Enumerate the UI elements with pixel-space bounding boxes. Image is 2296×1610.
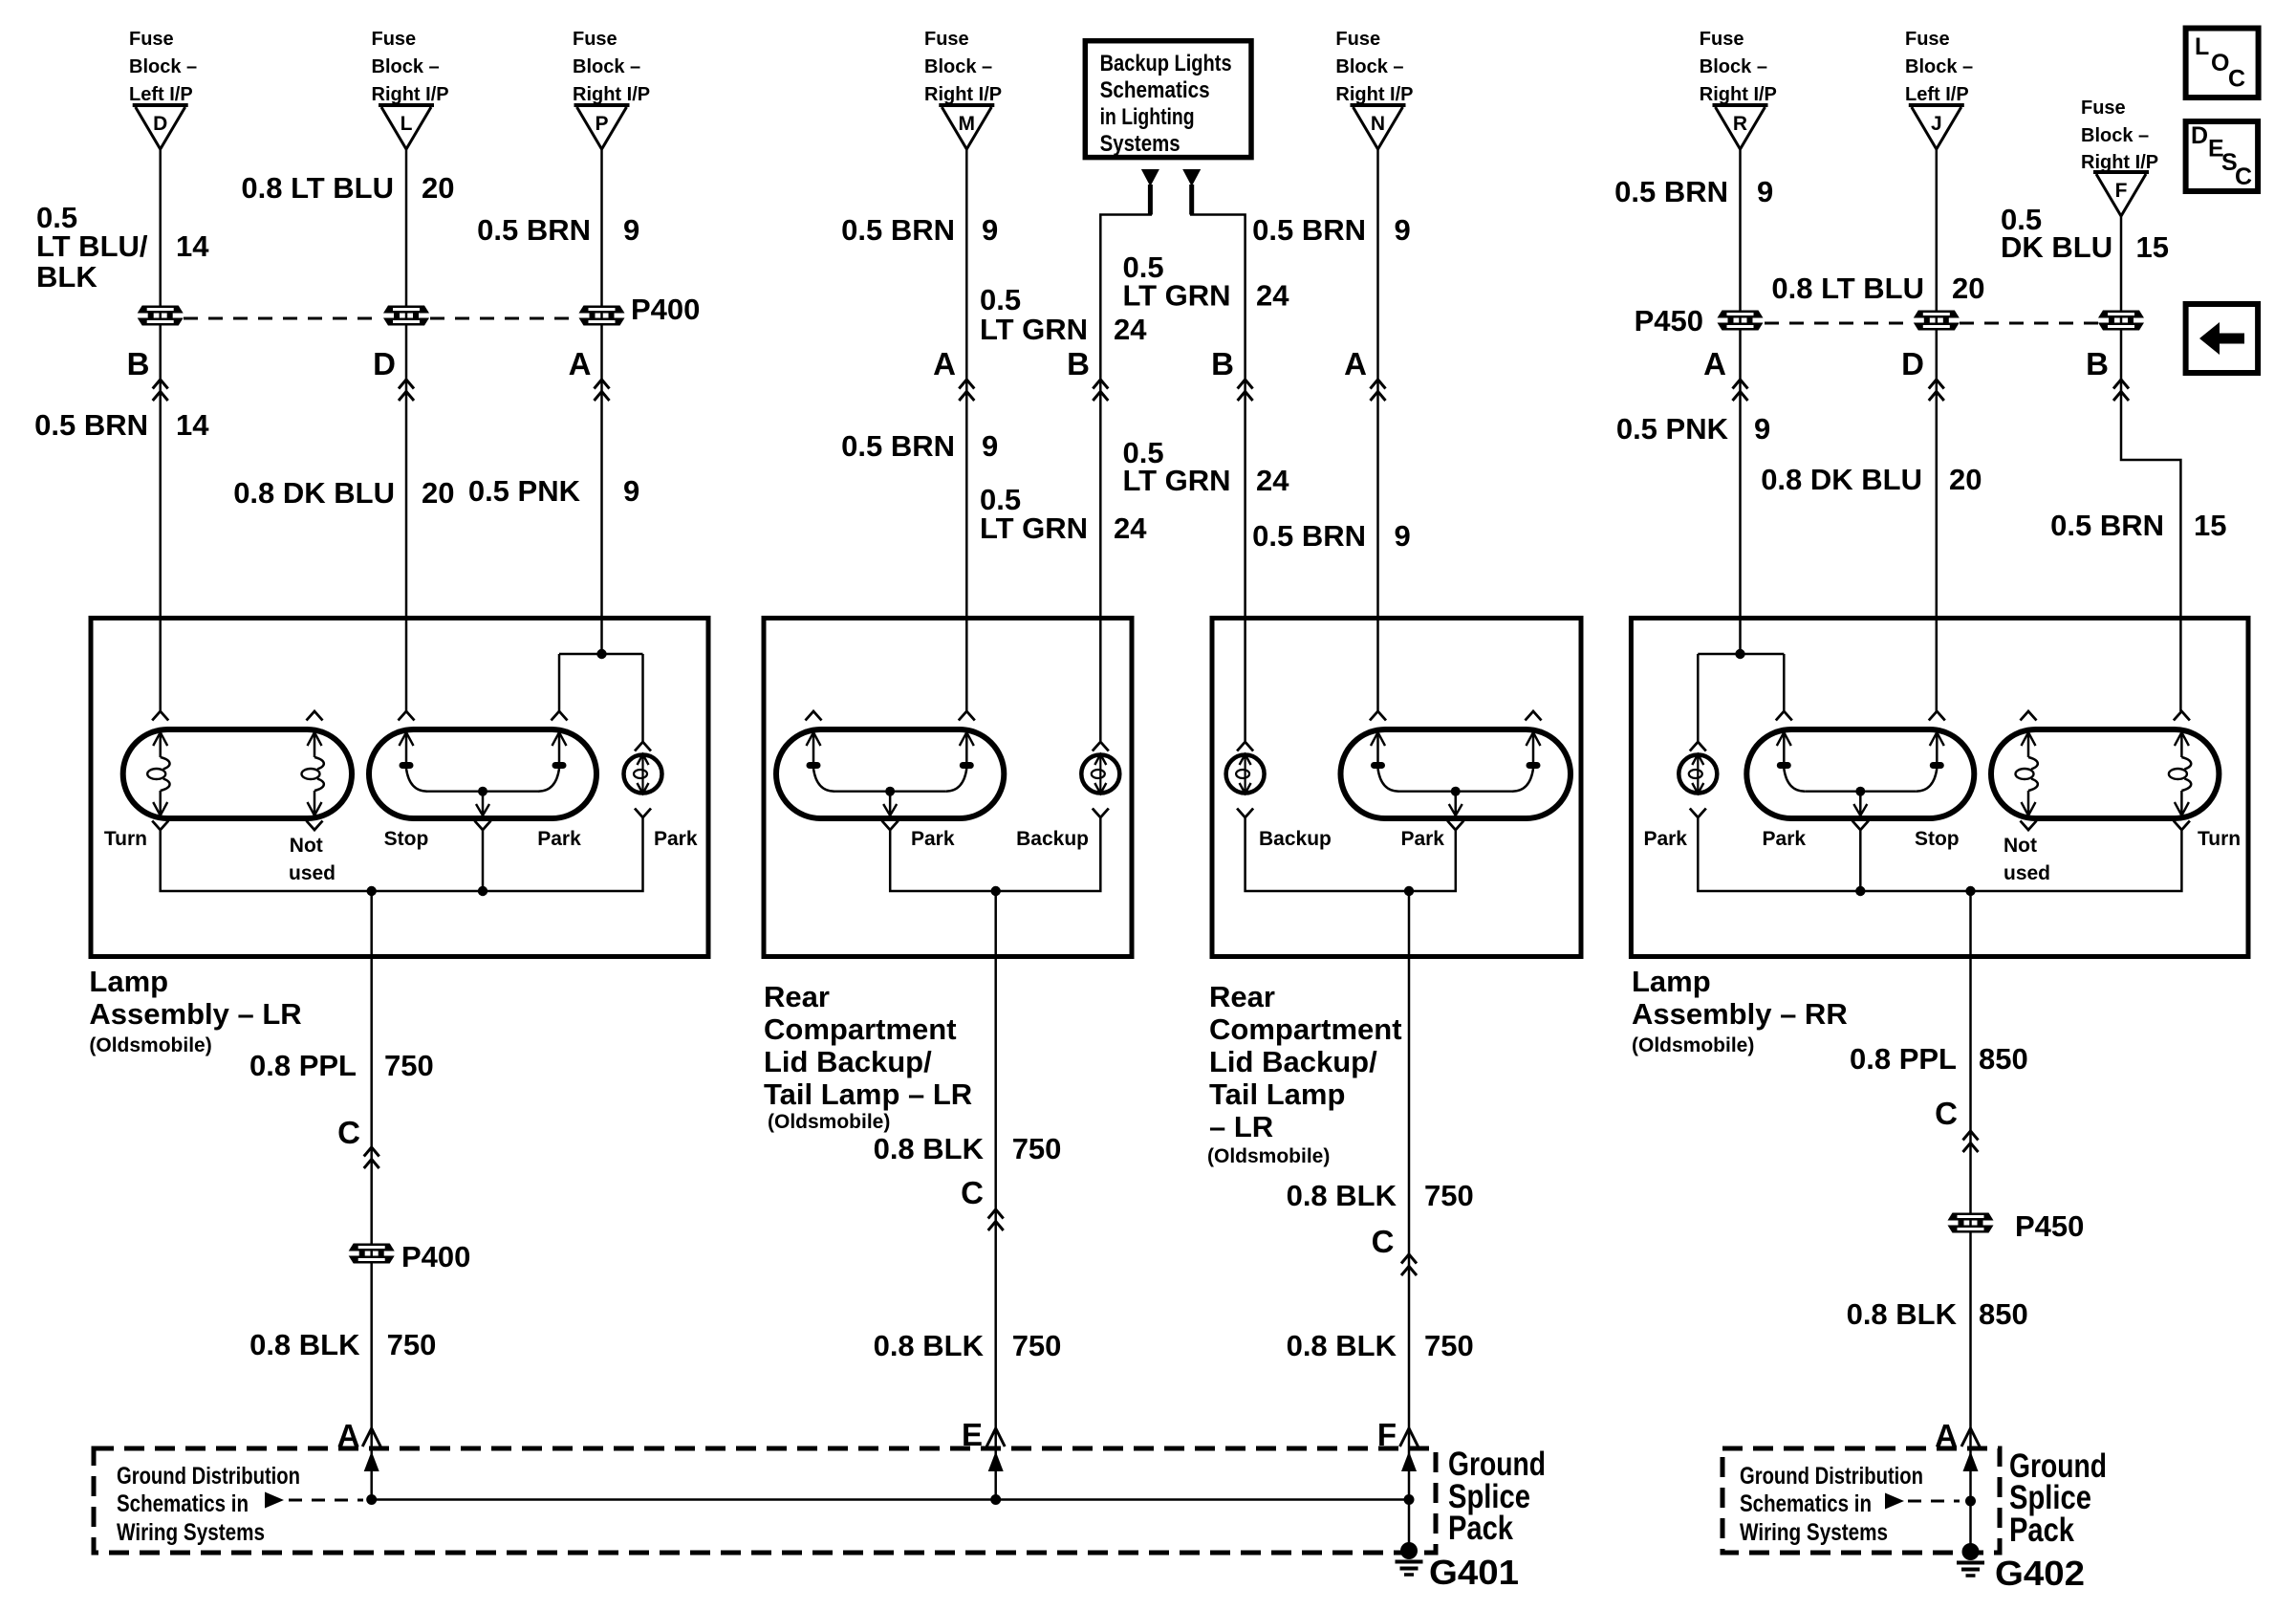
label Ground Splice Pack (right) — [2009, 1447, 2107, 1549]
label 0.8 DK BLU circuit 20 (J lower) — [1761, 463, 1982, 496]
svg-text:Left I/P: Left I/P — [1905, 84, 1969, 105]
backup bulb (rear lamp LR second) — [1226, 742, 1265, 817]
junction node park branch (lamp LR) — [559, 653, 643, 656]
wire lamp RR ground exit to G402 — [1969, 891, 1972, 1552]
svg-text:Fuse: Fuse — [924, 29, 969, 50]
label Lamp Assembly - LR (Oldsmobile) — [89, 965, 301, 1056]
ground bus wire inside lamp RR — [1698, 817, 2181, 891]
svg-text:Compartment: Compartment — [764, 1012, 957, 1046]
svg-text:P450: P450 — [1635, 304, 1703, 337]
wire to park bulb (lamp RR) — [1697, 654, 1700, 742]
pin C of rear lamp first connector — [961, 1175, 1004, 1230]
wire fuse L to lamp assembly LR stop terminal — [405, 149, 408, 711]
wire fuse N to rear lamp LR park terminal — [1376, 149, 1379, 711]
junction dots lamp LR bus — [367, 886, 377, 896]
label Lamp Assembly - RR (Oldsmobile) — [1632, 965, 1848, 1056]
svg-text:L: L — [2195, 33, 2209, 60]
ground bus wire inside lamp LR — [161, 817, 643, 891]
pin A ground splice pack (right) — [1935, 1418, 1980, 1453]
svg-text:J: J — [1931, 113, 1942, 135]
svg-text:0.8 BLK: 0.8 BLK — [1287, 1329, 1397, 1362]
svg-text:D: D — [1901, 346, 1924, 381]
svg-text:G401: G401 — [1429, 1553, 1519, 1592]
fuse block triangle J — [1909, 105, 1964, 149]
svg-text:Lamp: Lamp — [89, 965, 168, 998]
pin A of lamp assembly LR — [569, 346, 610, 401]
svg-text:LT GRN: LT GRN — [980, 313, 1088, 346]
pin F ground splice pack — [1377, 1417, 1419, 1452]
svg-text:750: 750 — [384, 1049, 434, 1082]
svg-text:A: A — [1703, 346, 1726, 381]
fuse block triangle D — [133, 105, 188, 149]
park bulb (lamp RR) — [1679, 742, 1717, 817]
not-used/turn dual filament bulb (lamp RR) — [1991, 711, 2219, 830]
svg-text:0.8 DK BLU: 0.8 DK BLU — [233, 476, 395, 510]
fuse block D header - Fuse Block Left I/P — [129, 29, 197, 105]
svg-text:Pack: Pack — [1448, 1510, 1513, 1547]
label 0.5 LT GRN circuit 24 (B right lower) — [1123, 436, 1290, 497]
fuse block L header - Fuse Block Right I/P — [372, 29, 449, 105]
fuse block P header - Fuse Block Right I/P — [573, 29, 650, 105]
svg-text:LT BLU/: LT BLU/ — [36, 229, 148, 263]
svg-text:750: 750 — [1012, 1329, 1062, 1362]
label Ground Splice Pack (left) — [1448, 1446, 1546, 1547]
dashed link P450 connectors — [1765, 322, 2098, 325]
svg-text:C: C — [1372, 1224, 1395, 1259]
back arrow legend box — [2186, 304, 2259, 373]
svg-text:C: C — [2235, 163, 2252, 190]
park bulb (lamp LR) — [624, 742, 662, 817]
svg-text:(Oldsmobile): (Oldsmobile) — [768, 1111, 890, 1133]
svg-text:Fuse: Fuse — [2081, 98, 2126, 119]
svg-text:M: M — [959, 113, 976, 135]
junction dots ground bus (left) — [366, 1494, 377, 1505]
svg-text:0.5 BRN: 0.5 BRN — [1614, 175, 1728, 208]
svg-text:9: 9 — [623, 474, 639, 508]
wire lamp LR ground exit — [370, 891, 373, 1500]
pin A of rear compartment lamp LR — [933, 346, 974, 401]
pin C of rear lamp second connector — [1372, 1224, 1417, 1275]
wire rear lamp LR second ground exit to G401 — [1408, 891, 1411, 1551]
svg-text:P450: P450 — [2015, 1209, 2084, 1243]
fuse block N header - Fuse Block Right I/P — [1335, 29, 1413, 105]
label 0.8 BLK circuit 750 (rear lamp first upper) — [874, 1132, 1062, 1165]
svg-text:24: 24 — [1256, 279, 1289, 313]
svg-text:14: 14 — [176, 408, 209, 442]
LOC legend box — [2186, 29, 2259, 98]
junction node park branch (lamp RR) — [1698, 653, 1784, 656]
svg-text:Turn: Turn — [2198, 828, 2241, 850]
label 0.5 PNK circuit 9 (R lower) — [1616, 412, 1770, 446]
svg-text:Park: Park — [654, 828, 698, 850]
label 0.5 BRN circuit 9 (M lower) — [841, 429, 998, 463]
pin C of lamp RR connector — [1935, 1096, 1978, 1152]
svg-text:Block –: Block – — [372, 56, 440, 77]
component box Rear Compartment Lid Backup/Tail Lamp - LR (first) — [764, 619, 1132, 957]
svg-text:L: L — [401, 113, 413, 135]
svg-text:750: 750 — [387, 1328, 437, 1361]
label 0.5 LT BLU/BLK circuit 14 — [36, 201, 209, 294]
svg-text:C: C — [2228, 66, 2245, 93]
svg-text:LT GRN: LT GRN — [1123, 464, 1231, 497]
label Rear Compartment Lid Backup/Tail Lamp - LR (second) — [1207, 980, 1402, 1167]
label 0.8 LT BLU circuit 20 — [241, 171, 454, 205]
stop/park dual filament bulb (lamp LR) — [369, 711, 596, 830]
svg-text:B: B — [1211, 346, 1234, 381]
svg-text:0.5 BRN: 0.5 BRN — [841, 213, 955, 247]
text ground distribution schematics (right) — [1740, 1463, 1923, 1546]
junction dot rear lamp LR first — [991, 886, 1001, 896]
wire park/stop centre terminal to bus — [1859, 830, 1862, 891]
fuse block triangle L — [379, 105, 434, 149]
ground bus wire inside rear lamp LR second — [1245, 817, 1456, 891]
ground G401 — [1396, 1542, 1520, 1592]
bulb labels rear lamp LR first — [911, 828, 1089, 850]
wire backup right branch — [1189, 185, 1194, 215]
svg-text:Backup: Backup — [1259, 828, 1332, 850]
svg-text:F: F — [2115, 180, 2128, 202]
svg-text:LT GRN: LT GRN — [1123, 279, 1231, 313]
turn/not-used dual filament bulb (lamp LR) — [123, 711, 352, 830]
pin D of lamp assembly LR — [373, 346, 414, 401]
junction dots lamp RR bus — [1855, 886, 1865, 896]
label 0.8 BLK circuit 750 (rear lamp second upper) — [1287, 1179, 1474, 1212]
svg-text:9: 9 — [982, 429, 998, 463]
pin B of rear compartment lamp LR (left) — [1067, 346, 1108, 401]
label 0.5 BRN circuit 15 — [2050, 509, 2226, 542]
svg-text:D: D — [373, 346, 396, 381]
svg-text:0.5 BRN: 0.5 BRN — [34, 408, 148, 442]
svg-text:LT GRN: LT GRN — [980, 511, 1088, 545]
svg-text:A: A — [933, 346, 956, 381]
pin A of rear compartment lamp LR (second) — [1344, 346, 1385, 401]
pin B of lamp assembly LR — [127, 346, 168, 401]
svg-text:B: B — [1067, 346, 1090, 381]
svg-text:P400: P400 — [631, 293, 700, 326]
svg-text:0.8 BLK: 0.8 BLK — [874, 1132, 985, 1165]
svg-text:Rear: Rear — [764, 980, 830, 1013]
svg-text:Assembly – LR: Assembly – LR — [89, 997, 301, 1031]
svg-text:0.5 PNK: 0.5 PNK — [1616, 412, 1729, 446]
svg-text:C: C — [961, 1175, 984, 1210]
dashed box ground distribution (left) — [94, 1448, 1436, 1553]
wire backup left branch — [1148, 185, 1153, 215]
ground G402 — [1957, 1543, 2085, 1593]
svg-text:R: R — [1733, 113, 1747, 135]
svg-text:Not: Not — [290, 835, 323, 857]
label 0.8 PPL circuit 750 — [249, 1049, 434, 1082]
svg-text:9: 9 — [623, 213, 639, 247]
svg-text:Park: Park — [1643, 828, 1687, 850]
svg-text:20: 20 — [422, 476, 454, 510]
svg-text:Block –: Block – — [129, 56, 197, 77]
wire fuse J to lamp assembly RR stop terminal — [1936, 149, 1939, 711]
fuse block R header - Fuse Block Right I/P — [1700, 29, 1777, 105]
svg-text:(Oldsmobile): (Oldsmobile) — [89, 1034, 211, 1056]
svg-text:G402: G402 — [1995, 1554, 2085, 1593]
svg-text:Compartment: Compartment — [1209, 1012, 1402, 1046]
svg-text:used: used — [2004, 862, 2050, 884]
label 0.5 BRN circuit 9 (R upper) — [1614, 175, 1773, 208]
label 0.8 BLK circuit 850 — [1847, 1297, 2028, 1331]
svg-text:Tail Lamp – LR: Tail Lamp – LR — [764, 1077, 972, 1111]
svg-text:Not: Not — [2004, 835, 2037, 857]
label 0.5 BRN circuit 9 (P column) — [477, 213, 639, 247]
in-line connector P450 on wire J — [1914, 311, 1960, 331]
svg-text:P400: P400 — [401, 1240, 470, 1273]
arrow into backup lights schematic (right) — [1182, 169, 1201, 186]
pin B of rear compartment lamp LR (right) — [1211, 346, 1252, 401]
svg-text:0.8 BLK: 0.8 BLK — [249, 1328, 360, 1361]
fuse block triangle M — [939, 105, 994, 149]
svg-text:Tail Lamp: Tail Lamp — [1209, 1077, 1345, 1111]
svg-text:Turn: Turn — [104, 828, 147, 850]
svg-text:Park: Park — [537, 828, 581, 850]
svg-text:9: 9 — [1754, 412, 1770, 446]
svg-text:Right I/P: Right I/P — [573, 84, 650, 105]
svg-text:Backup Lights: Backup Lights — [1100, 51, 1232, 76]
svg-text:Assembly – RR: Assembly – RR — [1632, 997, 1848, 1031]
label 0.5 BRN circuit 14 — [34, 408, 209, 442]
wire stop/park centre terminal to bus — [482, 830, 485, 891]
svg-text:0.8 LT BLU: 0.8 LT BLU — [241, 171, 394, 205]
ground bus wire inside rear lamp LR first — [890, 817, 1100, 891]
wire fuse P to park lamps junction — [600, 149, 603, 654]
svg-text:D: D — [153, 113, 167, 135]
fuse block triangle F — [2093, 172, 2149, 216]
park dual filament bulb (rear lamp LR first) — [776, 711, 1004, 830]
svg-text:– LR: – LR — [1209, 1110, 1273, 1143]
svg-text:Block –: Block – — [1700, 56, 1767, 77]
svg-text:C: C — [1935, 1096, 1958, 1131]
svg-text:9: 9 — [1757, 175, 1773, 208]
wire to park filament (lamp RR) — [1783, 654, 1786, 711]
svg-text:Wiring Systems: Wiring Systems — [1740, 1519, 1888, 1546]
label Rear Compartment Lid Backup/Tail Lamp - LR (first) — [764, 980, 972, 1133]
label 0.5 BRN circuit 9 (N upper) — [1252, 213, 1411, 247]
svg-text:Ground Distribution: Ground Distribution — [1740, 1463, 1923, 1490]
svg-text:Schematics: Schematics — [1100, 77, 1210, 103]
svg-text:850: 850 — [1979, 1297, 2028, 1331]
svg-text:Block –: Block – — [573, 56, 640, 77]
label 0.8 PPL circuit 850 — [1850, 1042, 2028, 1076]
svg-text:Stop: Stop — [1915, 828, 1960, 850]
svg-text:0.5: 0.5 — [980, 283, 1021, 316]
label 0.8 BLK circuit 750 (rear lamp first lower) — [874, 1329, 1062, 1362]
svg-text:Right I/P: Right I/P — [372, 84, 449, 105]
svg-text:0.5 PNK: 0.5 PNK — [468, 474, 581, 508]
fuse block J header - Fuse Block Left I/P — [1905, 29, 1973, 105]
svg-text:9: 9 — [1395, 519, 1411, 553]
svg-text:0.5 BRN: 0.5 BRN — [841, 429, 955, 463]
svg-text:24: 24 — [1256, 464, 1289, 497]
svg-text:24: 24 — [1114, 313, 1147, 346]
in-line connector P400 on wire D — [138, 306, 184, 326]
label 0.8 BLK circuit 750 (rear lamp second lower) — [1287, 1329, 1474, 1362]
in-line connector P450 on wire R — [1718, 311, 1764, 331]
svg-text:850: 850 — [1979, 1042, 2028, 1076]
svg-text:Block –: Block – — [2081, 125, 2149, 146]
svg-text:14: 14 — [176, 229, 209, 263]
in-line connector P450 on wire F — [2098, 311, 2144, 331]
reference arrow to ground distribution (right) — [1885, 1493, 1904, 1510]
svg-text:Park: Park — [1400, 828, 1444, 850]
wire fuse M to rear lamp LR park terminal — [965, 149, 968, 711]
fuse block F header - Fuse Block Right I/P — [2081, 98, 2158, 173]
svg-text:A: A — [1344, 346, 1367, 381]
svg-text:24: 24 — [1114, 511, 1147, 545]
reference box Backup Lights Schematics in Lighting Systems — [1085, 41, 1251, 158]
svg-text:Block –: Block – — [1335, 56, 1403, 77]
svg-text:15: 15 — [2136, 230, 2169, 264]
svg-text:Fuse: Fuse — [1905, 29, 1950, 50]
svg-text:0.8 BLK: 0.8 BLK — [1287, 1179, 1397, 1212]
ground splice bus wire (left) — [372, 1498, 1409, 1501]
svg-text:0.8 BLK: 0.8 BLK — [1847, 1297, 1958, 1331]
label 0.5 BRN circuit 9 (M upper) — [841, 213, 998, 247]
DESC legend box — [2186, 121, 2259, 191]
svg-text:0.5 BRN: 0.5 BRN — [1252, 213, 1366, 247]
svg-text:Fuse: Fuse — [1335, 29, 1380, 50]
label 0.8 BLK circuit 750 (lamp LR) — [249, 1328, 436, 1361]
svg-text:C: C — [337, 1115, 360, 1150]
in-line connector P450 (bottom) — [1948, 1209, 2085, 1243]
component box Lamp Assembly - LR — [91, 619, 708, 957]
svg-text:B: B — [2086, 346, 2109, 381]
svg-text:(Oldsmobile): (Oldsmobile) — [1632, 1034, 1754, 1056]
svg-text:Lamp: Lamp — [1632, 965, 1711, 998]
svg-text:Rear: Rear — [1209, 980, 1275, 1013]
arrow into backup lights schematic (left) — [1141, 169, 1159, 186]
svg-text:0.8 DK BLU: 0.8 DK BLU — [1761, 463, 1922, 496]
svg-text:0.8 BLK: 0.8 BLK — [874, 1329, 985, 1362]
component box Rear Compartment Lid Backup/Tail Lamp - LR (second) — [1212, 619, 1581, 957]
svg-text:Right I/P: Right I/P — [1700, 84, 1777, 105]
svg-text:Right I/P: Right I/P — [924, 84, 1002, 105]
svg-text:20: 20 — [1949, 463, 1982, 496]
component box Lamp Assembly - RR — [1631, 619, 2248, 957]
svg-text:A: A — [569, 346, 592, 381]
svg-text:N: N — [1371, 113, 1385, 135]
svg-text:O: O — [2211, 50, 2229, 76]
junction dot rear lamp LR second — [1404, 886, 1414, 896]
backup bulb (rear lamp LR first) — [1081, 742, 1119, 817]
splice arrows into ground bus — [364, 1451, 379, 1471]
svg-text:Block –: Block – — [924, 56, 992, 77]
label 0.5 DK BLU circuit 15 — [2001, 203, 2169, 264]
wire fuse D to lamp assembly LR turn terminal — [159, 149, 162, 711]
wire fuse R to lamp assembly RR junction — [1739, 149, 1742, 654]
svg-text:750: 750 — [1424, 1179, 1474, 1212]
svg-text:Ground Distribution: Ground Distribution — [117, 1463, 300, 1490]
svg-text:Schematics in: Schematics in — [117, 1490, 249, 1517]
svg-text:P: P — [595, 113, 608, 135]
bulb labels lamp LR — [104, 828, 698, 884]
label 0.8 DK BLU circuit 20 — [233, 476, 454, 510]
svg-text:Right I/P: Right I/P — [1335, 84, 1413, 105]
reference arrow to ground distribution (left) — [265, 1492, 284, 1509]
in-line connector P400 on wire L — [383, 306, 429, 326]
park dual filament bulb (rear lamp LR second) — [1341, 711, 1571, 830]
wire fuse F jog to lamp assembly RR turn terminal — [2121, 216, 2180, 711]
park/stop dual filament bulb (lamp RR) — [1746, 711, 1974, 830]
svg-text:Pack: Pack — [2009, 1512, 2074, 1549]
svg-text:0.5 BRN: 0.5 BRN — [2050, 509, 2164, 542]
svg-text:9: 9 — [982, 213, 998, 247]
svg-text:750: 750 — [1424, 1329, 1474, 1362]
svg-text:Fuse: Fuse — [1700, 29, 1744, 50]
svg-text:0.5 BRN: 0.5 BRN — [477, 213, 591, 247]
pin B of lamp assembly RR — [2086, 346, 2129, 401]
fuse block M header - Fuse Block Right I/P — [924, 29, 1002, 105]
junction dot ground wire (right) — [1965, 1496, 1976, 1507]
label 0.5 LT GRN circuit 24 (B right upper) — [1123, 250, 1290, 313]
dashed box ground distribution (right) — [1722, 1448, 2000, 1553]
label 0.5 PNK circuit 9 — [468, 474, 639, 508]
svg-text:9: 9 — [1395, 213, 1411, 247]
dashed link P400 connectors — [184, 317, 579, 320]
svg-text:0.8 PPL: 0.8 PPL — [249, 1049, 357, 1082]
svg-text:20: 20 — [1952, 272, 1984, 305]
fuse block triangle N — [1351, 105, 1406, 149]
svg-text:Right I/P: Right I/P — [2081, 152, 2158, 173]
svg-text:B: B — [127, 346, 150, 381]
wire rear lamp LR first ground exit — [994, 891, 997, 1500]
pin D of lamp assembly RR — [1901, 346, 1944, 401]
svg-text:used: used — [289, 862, 336, 884]
svg-text:(Oldsmobile): (Oldsmobile) — [1207, 1145, 1330, 1167]
fuse block triangle P — [574, 105, 630, 149]
svg-text:Fuse: Fuse — [372, 29, 417, 50]
splice arrow into ground wire (right) — [1963, 1451, 1979, 1471]
label 0.5 LT GRN circuit 24 (B left upper) — [980, 283, 1147, 346]
pin A of lamp assembly RR — [1703, 346, 1747, 401]
svg-text:Fuse: Fuse — [573, 29, 617, 50]
svg-text:15: 15 — [2194, 509, 2226, 542]
svg-text:BLK: BLK — [36, 260, 97, 294]
svg-text:Systems: Systems — [1100, 131, 1180, 157]
svg-text:0.8 PPL: 0.8 PPL — [1850, 1042, 1957, 1076]
svg-text:Schematics in: Schematics in — [1740, 1490, 1872, 1517]
svg-text:Block –: Block – — [1905, 56, 1973, 77]
in-line connector P400 on wire P — [579, 306, 625, 326]
svg-text:0.8 LT BLU: 0.8 LT BLU — [1771, 272, 1924, 305]
wire to park filament (lamp LR) — [558, 654, 561, 711]
fuse block triangle R — [1713, 105, 1768, 149]
svg-text:Left I/P: Left I/P — [129, 84, 193, 105]
svg-text:20: 20 — [422, 171, 454, 205]
label 0.8 LT BLU circuit 20 (J upper) — [1771, 272, 1984, 305]
svg-text:750: 750 — [1012, 1132, 1062, 1165]
pin A ground splice pack (left) — [337, 1418, 381, 1453]
svg-text:Park: Park — [1763, 828, 1807, 850]
svg-text:Backup: Backup — [1016, 828, 1089, 850]
svg-text:Lid Backup/: Lid Backup/ — [764, 1045, 932, 1078]
svg-text:Wiring Systems: Wiring Systems — [117, 1519, 265, 1546]
in-line connector P400 (bottom) — [349, 1240, 471, 1273]
label 0.5 BRN circuit 9 (N lower) — [1252, 519, 1411, 553]
svg-text:Stop: Stop — [384, 828, 429, 850]
svg-text:Fuse: Fuse — [129, 29, 174, 50]
text ground distribution schematics (left) — [117, 1463, 300, 1546]
pin E ground splice pack — [962, 1417, 1005, 1452]
svg-text:Park: Park — [911, 828, 955, 850]
bulb labels lamp RR — [1643, 828, 2241, 884]
wire to park bulb (lamp LR) — [641, 654, 644, 742]
label 0.5 LT GRN circuit 24 (B left lower) — [980, 483, 1147, 545]
svg-text:Lid Backup/: Lid Backup/ — [1209, 1045, 1377, 1078]
bulb labels rear lamp LR second — [1259, 828, 1444, 850]
